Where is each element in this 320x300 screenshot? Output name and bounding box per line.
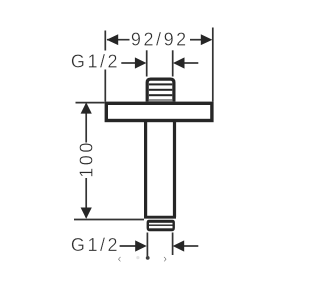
svg-text:‹: ‹ — [118, 253, 122, 265]
svg-text:100: 100 — [76, 140, 96, 178]
svg-text:G1/2: G1/2 — [71, 235, 120, 255]
svg-text:G1/2: G1/2 — [71, 51, 120, 71]
svg-text:92/92: 92/92 — [131, 30, 189, 50]
svg-text:›: › — [163, 253, 167, 265]
